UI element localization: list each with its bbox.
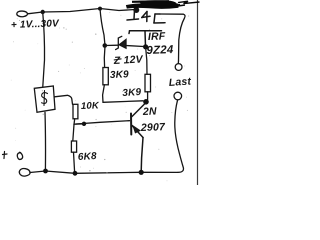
triangle (119, 40, 126, 49)
wire load return (right side up) (175, 100, 184, 172)
base bar (130, 114, 132, 135)
svg-text:IRF: IRF (148, 30, 166, 43)
$ symbol inside box (43, 91, 46, 106)
right paper border edge (197, 0, 198, 185)
terminal input + (top-left) (17, 11, 28, 17)
svg-text:6K8: 6K8 (78, 151, 98, 163)
wire to gate node (126, 46, 144, 47)
junction at +V and box branch (41, 10, 45, 14)
collector lead (132, 104, 145, 117)
label +1V...30V (11, 18, 61, 31)
emitter wire down to rail (141, 138, 143, 172)
junction top rail at MOSFET source (133, 7, 139, 13)
source stub (133, 10, 136, 19)
label IRF 9Z24 (146, 30, 174, 57)
label 3K9 (R2) (122, 87, 142, 99)
svg-text:10K: 10K (81, 100, 100, 112)
junction zener left node (103, 43, 108, 48)
resistor R1 3K9 (upper left) (103, 46, 109, 102)
wire top rail to box (43, 12, 45, 87)
junction collector node (143, 99, 149, 105)
substrate arrow up (146, 12, 148, 22)
junction rail-6K8 (73, 171, 78, 176)
svg-text:Z 12V: Z 12V (113, 53, 144, 67)
terminal load upper (175, 61, 182, 70)
label Last (168, 75, 191, 89)
transistor Q1 IRF9Z24 P-MOSFET (127, 10, 165, 47)
emitter lead (132, 126, 143, 138)
junction rail-emitter (139, 170, 144, 175)
junction divider node (82, 122, 86, 126)
wire R1 bottom to collector node (103, 101, 143, 103)
svg-text:+ 1V...30V: + 1V...30V (11, 18, 61, 31)
label 10K (81, 100, 100, 112)
gate lead down (144, 31, 147, 47)
svg-text:9Z24: 9Z24 (146, 44, 174, 57)
emitter arrow (pnp, pointing to base) (134, 127, 140, 133)
label Z 12V (113, 53, 144, 67)
label minus mark (3, 152, 8, 159)
resistor R4 6K8 (71, 125, 76, 173)
terminal 0V (bottom-left) (19, 169, 30, 177)
zener diode D1 12V (105, 36, 144, 49)
reference box U1 (with $ symbol) (34, 86, 55, 112)
wire box bottom to ground rail (44, 112, 47, 170)
svg-text:3K9: 3K9 (122, 87, 142, 99)
resistor R2 3K9 (right, gate pulldown) (145, 47, 151, 100)
source contact bar (127, 19, 139, 20)
wire base to divider node (76, 121, 130, 124)
transistor Q2 2N2907 PNP (131, 104, 145, 172)
scribble (redacted text top-right) (127, 1, 200, 8)
drain contact (154, 14, 155, 23)
channel bar (129, 31, 162, 34)
label 2N 2907 (140, 106, 167, 135)
label 3K9 (R1) (110, 69, 130, 81)
junction rail-box (43, 169, 48, 174)
wire divider node corner (74, 123, 84, 125)
svg-text:2907: 2907 (140, 121, 167, 134)
label 6K8 (78, 151, 98, 163)
anode wire left (105, 44, 118, 46)
terminal load lower (174, 92, 182, 100)
svg-text:Last: Last (168, 75, 191, 89)
wire top rail (28, 9, 136, 14)
junction top rail to zener chain (98, 7, 102, 11)
wire top rail to zener node (left chain) (100, 9, 105, 46)
label 0 mark (17, 152, 22, 159)
svg-text:2N: 2N (142, 106, 157, 119)
svg-text:3K9: 3K9 (110, 69, 130, 81)
resistor R3 10K (73, 104, 78, 124)
ground rail (bottom) (30, 171, 178, 173)
cathode bar with zener wings (116, 36, 122, 49)
junction gate node (143, 44, 148, 49)
wire drain to load terminal (160, 14, 185, 61)
wire box to R3 10K (55, 95, 73, 104)
